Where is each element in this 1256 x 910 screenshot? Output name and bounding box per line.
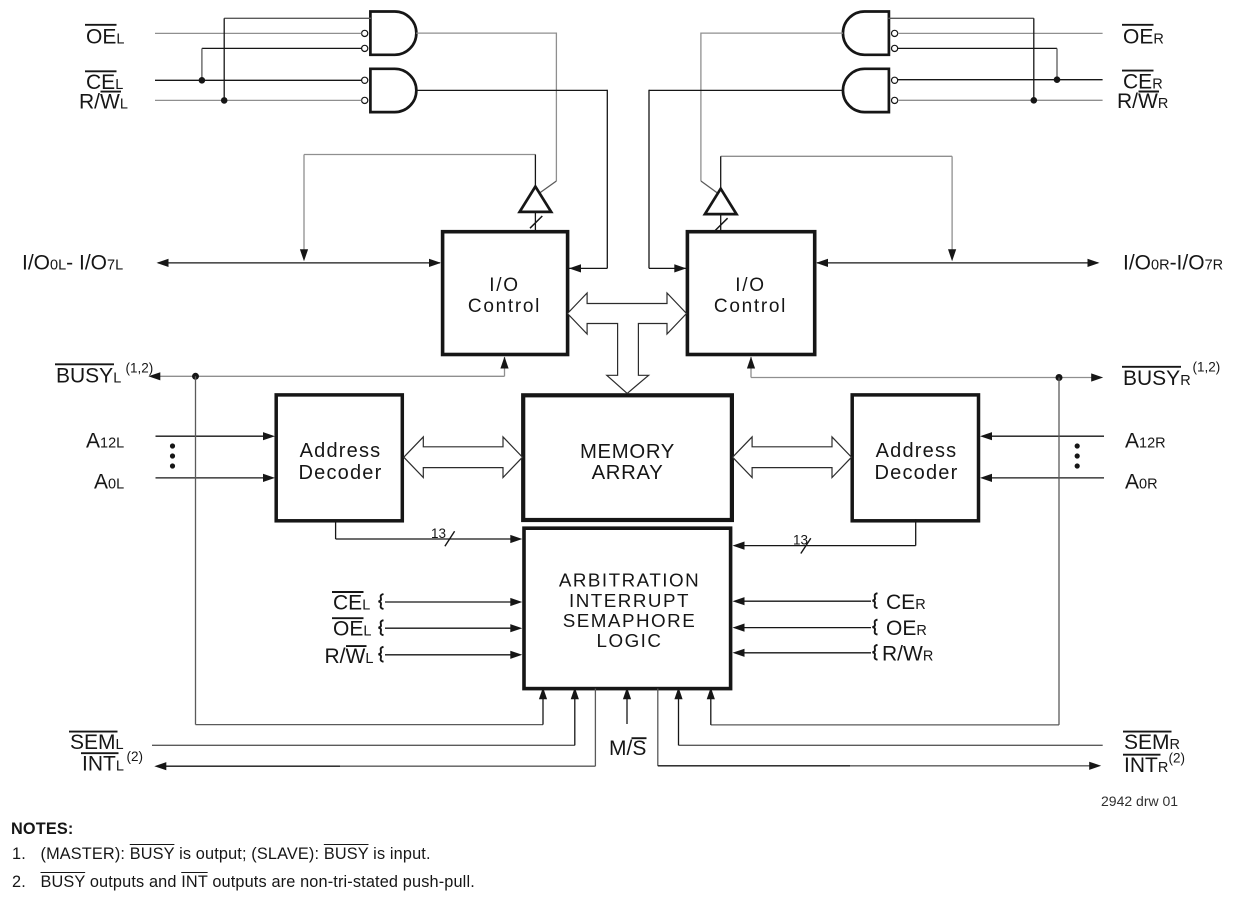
overline BUSYR bbox=[1122, 366, 1181, 368]
overline OEL arbitration bbox=[332, 617, 364, 619]
wire BUSYL feedback up bbox=[542, 690, 544, 725]
svg-text:OEL: OEL bbox=[86, 26, 124, 49]
bus-width slash TR bbox=[715, 218, 727, 230]
overline CER bbox=[1122, 70, 1154, 72]
arrowhead BUSYR output bbox=[1091, 373, 1103, 381]
overline R/WL W bbox=[101, 91, 122, 93]
arrowhead CER into arbitration bbox=[733, 597, 745, 605]
wire CER horizontal bbox=[898, 79, 1103, 81]
arrowhead A12L into decoder bbox=[263, 432, 275, 440]
G2L input bubble pin2 bbox=[362, 97, 368, 103]
node R/WR junction bbox=[1031, 97, 1038, 104]
wire INTL vertical bbox=[594, 689, 596, 767]
G2R input bubble pin1 bbox=[892, 77, 898, 83]
wire R/WR branch vertical bbox=[1033, 18, 1035, 100]
svg-text:2942 drw 01: 2942 drw 01 bbox=[1101, 793, 1178, 809]
svg-text:R/WR: R/WR bbox=[1117, 90, 1168, 113]
wire diagonal into buffer TL bbox=[538, 181, 557, 195]
arrowhead R/WR into arbitration bbox=[733, 649, 745, 657]
svg-text:(1,2): (1,2) bbox=[126, 361, 154, 376]
wire G1L output vertical bbox=[555, 33, 557, 182]
arrowhead R/WL into arbitration bbox=[510, 651, 522, 659]
block I/O Control left bbox=[443, 232, 568, 355]
svg-text:INTR: INTR bbox=[1124, 754, 1168, 777]
wire SEML horizontal bbox=[152, 744, 575, 746]
wire R/WR to arbitration bbox=[743, 652, 871, 654]
arrowhead OEL into arbitration bbox=[510, 624, 522, 632]
wire OEL to G1L pin2 bbox=[155, 32, 362, 34]
svg-text:Control: Control bbox=[714, 296, 787, 317]
arrowhead 13-bus right into arbitration bbox=[733, 542, 745, 550]
wire drop to I/O bus R bbox=[951, 156, 953, 250]
wire G1R output bbox=[701, 32, 843, 34]
wire 13-bus right horizontal bbox=[743, 545, 916, 547]
arrowhead BUSYL into I/O Control L bottom bbox=[500, 357, 508, 369]
node R/WL junction bbox=[221, 97, 228, 104]
svg-text:Decoder: Decoder bbox=[875, 462, 959, 484]
svg-text:Control: Control bbox=[468, 296, 541, 317]
arrowhead SEML into arbitration bottom bbox=[571, 687, 579, 699]
wire A12L bbox=[156, 435, 266, 437]
wire G1L pin3 horizontal bbox=[202, 47, 362, 49]
G1L input bubble pin2 bbox=[362, 30, 368, 36]
overline R/WR W bbox=[1139, 91, 1160, 93]
wire 13-bus left vertical bbox=[335, 521, 337, 539]
wire CER to arbitration bbox=[743, 600, 871, 602]
svg-text:(2): (2) bbox=[1169, 751, 1186, 766]
arrowhead INTR output bbox=[1089, 762, 1101, 770]
overline SEMR bbox=[1123, 731, 1172, 733]
note 2 bbox=[12, 873, 26, 892]
overline R/WL arbitration W bbox=[346, 645, 367, 647]
block Arbitration Interrupt Semaphore Logic bbox=[524, 528, 731, 688]
squiggle CER bbox=[873, 593, 878, 608]
bus arrow Address Decoder L to Memory bbox=[404, 437, 523, 478]
arrowhead A0R into decoder bbox=[980, 474, 992, 482]
wire A12R bbox=[991, 435, 1104, 437]
overline M/S S bbox=[632, 737, 647, 739]
arrowhead OER into arbitration bbox=[733, 624, 745, 632]
wire CEL horizontal bbox=[155, 79, 362, 81]
node BUSYL junction bbox=[192, 373, 199, 380]
wire INTL horizontal bbox=[165, 765, 340, 767]
svg-text:CEL: CEL bbox=[333, 591, 370, 614]
squiggle R/WL bbox=[379, 647, 384, 662]
squiggle CEL bbox=[379, 594, 384, 609]
wire BUSYR horizontal bbox=[751, 377, 1092, 379]
arrowhead BUSYR into arbitration bottom bbox=[707, 687, 715, 699]
node CEL junction bbox=[199, 77, 206, 84]
node CER junction bbox=[1054, 76, 1061, 83]
svg-text:INTERRUPT: INTERRUPT bbox=[569, 590, 690, 611]
note 1 bbox=[12, 845, 26, 864]
svg-text:(2): (2) bbox=[127, 749, 144, 764]
wire I/O bus right bbox=[817, 262, 1098, 264]
svg-text:CER: CER bbox=[886, 591, 926, 614]
svg-text:R/WL: R/WL bbox=[325, 645, 374, 668]
wire G1R pin3 horizontal bbox=[898, 47, 1057, 49]
svg-text:I/O0L- I/O7L: I/O0L- I/O7L bbox=[22, 252, 123, 275]
wire SEMR up bbox=[678, 690, 680, 745]
svg-text:Address: Address bbox=[300, 440, 382, 462]
G2R input bubble pin2 bbox=[892, 97, 898, 103]
wire A0R bbox=[991, 477, 1104, 479]
wire SEML up bbox=[574, 690, 576, 745]
svg-text:(1,2): (1,2) bbox=[1193, 360, 1221, 375]
svg-text:A12R: A12R bbox=[1125, 430, 1166, 453]
wire buffer TR top vertical bbox=[720, 156, 722, 189]
arrowhead into I/O Control L right edge bbox=[569, 264, 581, 272]
arrowhead I/O bus left into box bbox=[429, 259, 441, 267]
G2L input bubble pin1 bbox=[362, 77, 368, 83]
wire diagonal into buffer TR bbox=[701, 181, 720, 195]
buffer U1L (tri-state buffer) bbox=[520, 187, 552, 212]
wire R/WR horizontal bbox=[898, 99, 1103, 101]
svg-text:R/WL: R/WL bbox=[79, 90, 128, 113]
overline CEL bbox=[85, 70, 117, 72]
wire G1R output vertical bbox=[700, 33, 702, 182]
wire buffer TR to I/O Control R bbox=[720, 214, 722, 232]
svg-text:SEMAPHORE: SEMAPHORE bbox=[563, 610, 697, 631]
and-gate G2L (left CE/RW gate) bbox=[370, 69, 416, 112]
wire BUSYR feedback up bbox=[710, 690, 712, 725]
buffer U1R output run bbox=[721, 155, 952, 157]
arrowhead A0L into decoder bbox=[263, 474, 275, 482]
bus-width slash TL bbox=[530, 216, 542, 228]
arrowhead onto I/O bus L bbox=[300, 249, 308, 261]
wire G2R output bbox=[649, 89, 843, 91]
G1R input bubble pin2 bbox=[892, 30, 898, 36]
wire R/WL to arbitration bbox=[385, 654, 512, 656]
wire A0L bbox=[156, 477, 266, 479]
bus arrow Memory to Address Decoder R bbox=[733, 437, 852, 478]
svg-text:A12L: A12L bbox=[86, 430, 124, 453]
buffer U1L output run bbox=[304, 154, 535, 156]
wire drop to I/O bus L bbox=[303, 155, 305, 251]
overline SEML bbox=[69, 731, 118, 733]
wire SEMR horizontal bbox=[679, 744, 1103, 746]
wire BUSYL up to I/O Control L bbox=[504, 357, 506, 376]
node BUSYR junction bbox=[1056, 374, 1063, 381]
wire G2R output vertical bbox=[648, 90, 650, 269]
bus slash 13 left bbox=[445, 531, 455, 546]
svg-text:M/S: M/S bbox=[609, 737, 646, 760]
arrowhead I/O bus right end bbox=[1088, 259, 1100, 267]
wire G2L output vertical bbox=[606, 90, 608, 269]
wire G1L output bbox=[416, 32, 556, 34]
svg-text:LOGIC: LOGIC bbox=[597, 630, 663, 651]
arrowhead SEMR into arbitration bottom bbox=[674, 687, 682, 699]
wire I/O bus left bbox=[158, 262, 440, 264]
wire INTR vertical bbox=[657, 689, 659, 766]
svg-text:I/O: I/O bbox=[735, 275, 765, 296]
svg-text:Address: Address bbox=[876, 440, 958, 462]
overline OEL bbox=[85, 24, 117, 26]
wire G1L pin1 horizontal bbox=[224, 17, 371, 19]
bus slash 13 right bbox=[801, 538, 811, 553]
arrowhead A12R into decoder bbox=[980, 432, 992, 440]
arrowhead CEL into arbitration bbox=[510, 598, 522, 606]
G1L input bubble pin3 bbox=[362, 45, 368, 51]
arrowhead into I/O Control R left edge bbox=[674, 264, 686, 272]
wire OEL to arbitration bbox=[385, 627, 512, 629]
arrowhead BUSYL output bbox=[148, 372, 160, 380]
block Memory Array bbox=[523, 395, 732, 520]
wire BUSYL horizontal bbox=[159, 375, 505, 377]
overline INTR bbox=[1123, 754, 1161, 756]
block I/O Control right bbox=[687, 232, 814, 355]
svg-text:BUSYR: BUSYR bbox=[1123, 367, 1191, 390]
wire R/WL branch vertical bbox=[223, 18, 225, 100]
squiggle R/WR bbox=[873, 645, 878, 660]
buffer U1R (tri-state buffer) bbox=[705, 189, 737, 214]
block Address Decoder left bbox=[276, 395, 402, 521]
overline OER bbox=[1122, 24, 1154, 26]
wire OER to arbitration bbox=[743, 627, 871, 629]
svg-text:OER: OER bbox=[886, 617, 927, 640]
arrowhead M/S into arbitration bottom bbox=[623, 687, 631, 699]
squiggle OEL bbox=[379, 620, 384, 635]
arrowhead INTL output bbox=[154, 762, 166, 770]
svg-text:A0R: A0R bbox=[1125, 470, 1158, 493]
svg-text:INTL: INTL bbox=[82, 753, 124, 776]
wire M/S stub bbox=[626, 690, 628, 724]
svg-text:I/O0R-I/O7R: I/O0R-I/O7R bbox=[1123, 252, 1223, 275]
wire BUSYL feedback horizontal bbox=[196, 724, 544, 726]
svg-text:Decoder: Decoder bbox=[299, 462, 383, 484]
wire into I/O Control L right side bbox=[569, 267, 607, 269]
svg-text:ARRAY: ARRAY bbox=[592, 462, 664, 484]
ellipsis dots left addresses bbox=[170, 443, 175, 448]
bus arrow I/O Controls and Memory (T shape) bbox=[568, 293, 687, 393]
arrowhead BUSYL into arbitration bottom bbox=[539, 687, 547, 699]
svg-text:OEL: OEL bbox=[333, 618, 371, 641]
wire CER branch vertical bbox=[1056, 48, 1058, 79]
wire 13-bus right vertical bbox=[915, 519, 917, 545]
notes heading bbox=[11, 820, 73, 839]
arrowhead onto I/O bus R bbox=[948, 249, 956, 261]
and-gate G1L (left OE gate) bbox=[370, 12, 416, 55]
arrowhead 13-bus left into arbitration bbox=[510, 535, 522, 543]
wire OER to G1R pin2 bbox=[898, 32, 1103, 34]
G1R input bubble pin3 bbox=[892, 45, 898, 51]
wire BUSYR feedback vertical bbox=[1058, 378, 1060, 725]
wire buffer TL top vertical bbox=[534, 155, 536, 188]
and-gate G1R (right OE gate) bbox=[843, 12, 889, 55]
svg-text:R/WR: R/WR bbox=[882, 642, 933, 665]
svg-text:13: 13 bbox=[431, 526, 446, 541]
wire into I/O Control R left side bbox=[649, 267, 686, 269]
wire R/WL horizontal bbox=[155, 99, 362, 101]
svg-text:BUSYL: BUSYL bbox=[56, 365, 121, 388]
svg-text:MEMORY: MEMORY bbox=[580, 441, 675, 463]
arrowhead I/O bus left end bbox=[157, 259, 169, 267]
svg-text:A0L: A0L bbox=[94, 470, 124, 493]
wire BUSYR feedback horizontal bbox=[711, 724, 1059, 726]
and-gate G2R (right CE/RW gate) bbox=[843, 69, 889, 112]
wire CEL branch vertical bbox=[201, 48, 203, 80]
svg-text:ARBITRATION: ARBITRATION bbox=[559, 570, 700, 591]
svg-text:OER: OER bbox=[1123, 26, 1164, 49]
block Address Decoder right bbox=[852, 395, 978, 521]
squiggle OER bbox=[873, 620, 878, 635]
overline INTL bbox=[81, 752, 119, 754]
overline CEL arbitration bbox=[332, 591, 364, 593]
wire 13-bus left horizontal bbox=[336, 538, 512, 540]
wire buffer TL to I/O Control L bbox=[534, 212, 536, 232]
overline BUSYL bbox=[55, 363, 114, 365]
arrowhead I/O bus right into box bbox=[816, 259, 828, 267]
wire CEL to arbitration bbox=[385, 601, 512, 603]
ellipsis dots right addresses bbox=[1075, 443, 1080, 448]
wire G1R pin1 horizontal bbox=[888, 17, 1034, 19]
wire INTR horizontal bbox=[658, 765, 850, 767]
svg-text:I/O: I/O bbox=[489, 275, 519, 296]
arrowhead BUSYR into I/O Control R bottom bbox=[747, 357, 755, 369]
wire BUSYL feedback vertical bbox=[195, 376, 197, 724]
svg-text:SEML: SEML bbox=[70, 731, 124, 754]
wire BUSYR up to I/O Control R bbox=[750, 357, 752, 378]
wire G2L output bbox=[416, 89, 607, 91]
